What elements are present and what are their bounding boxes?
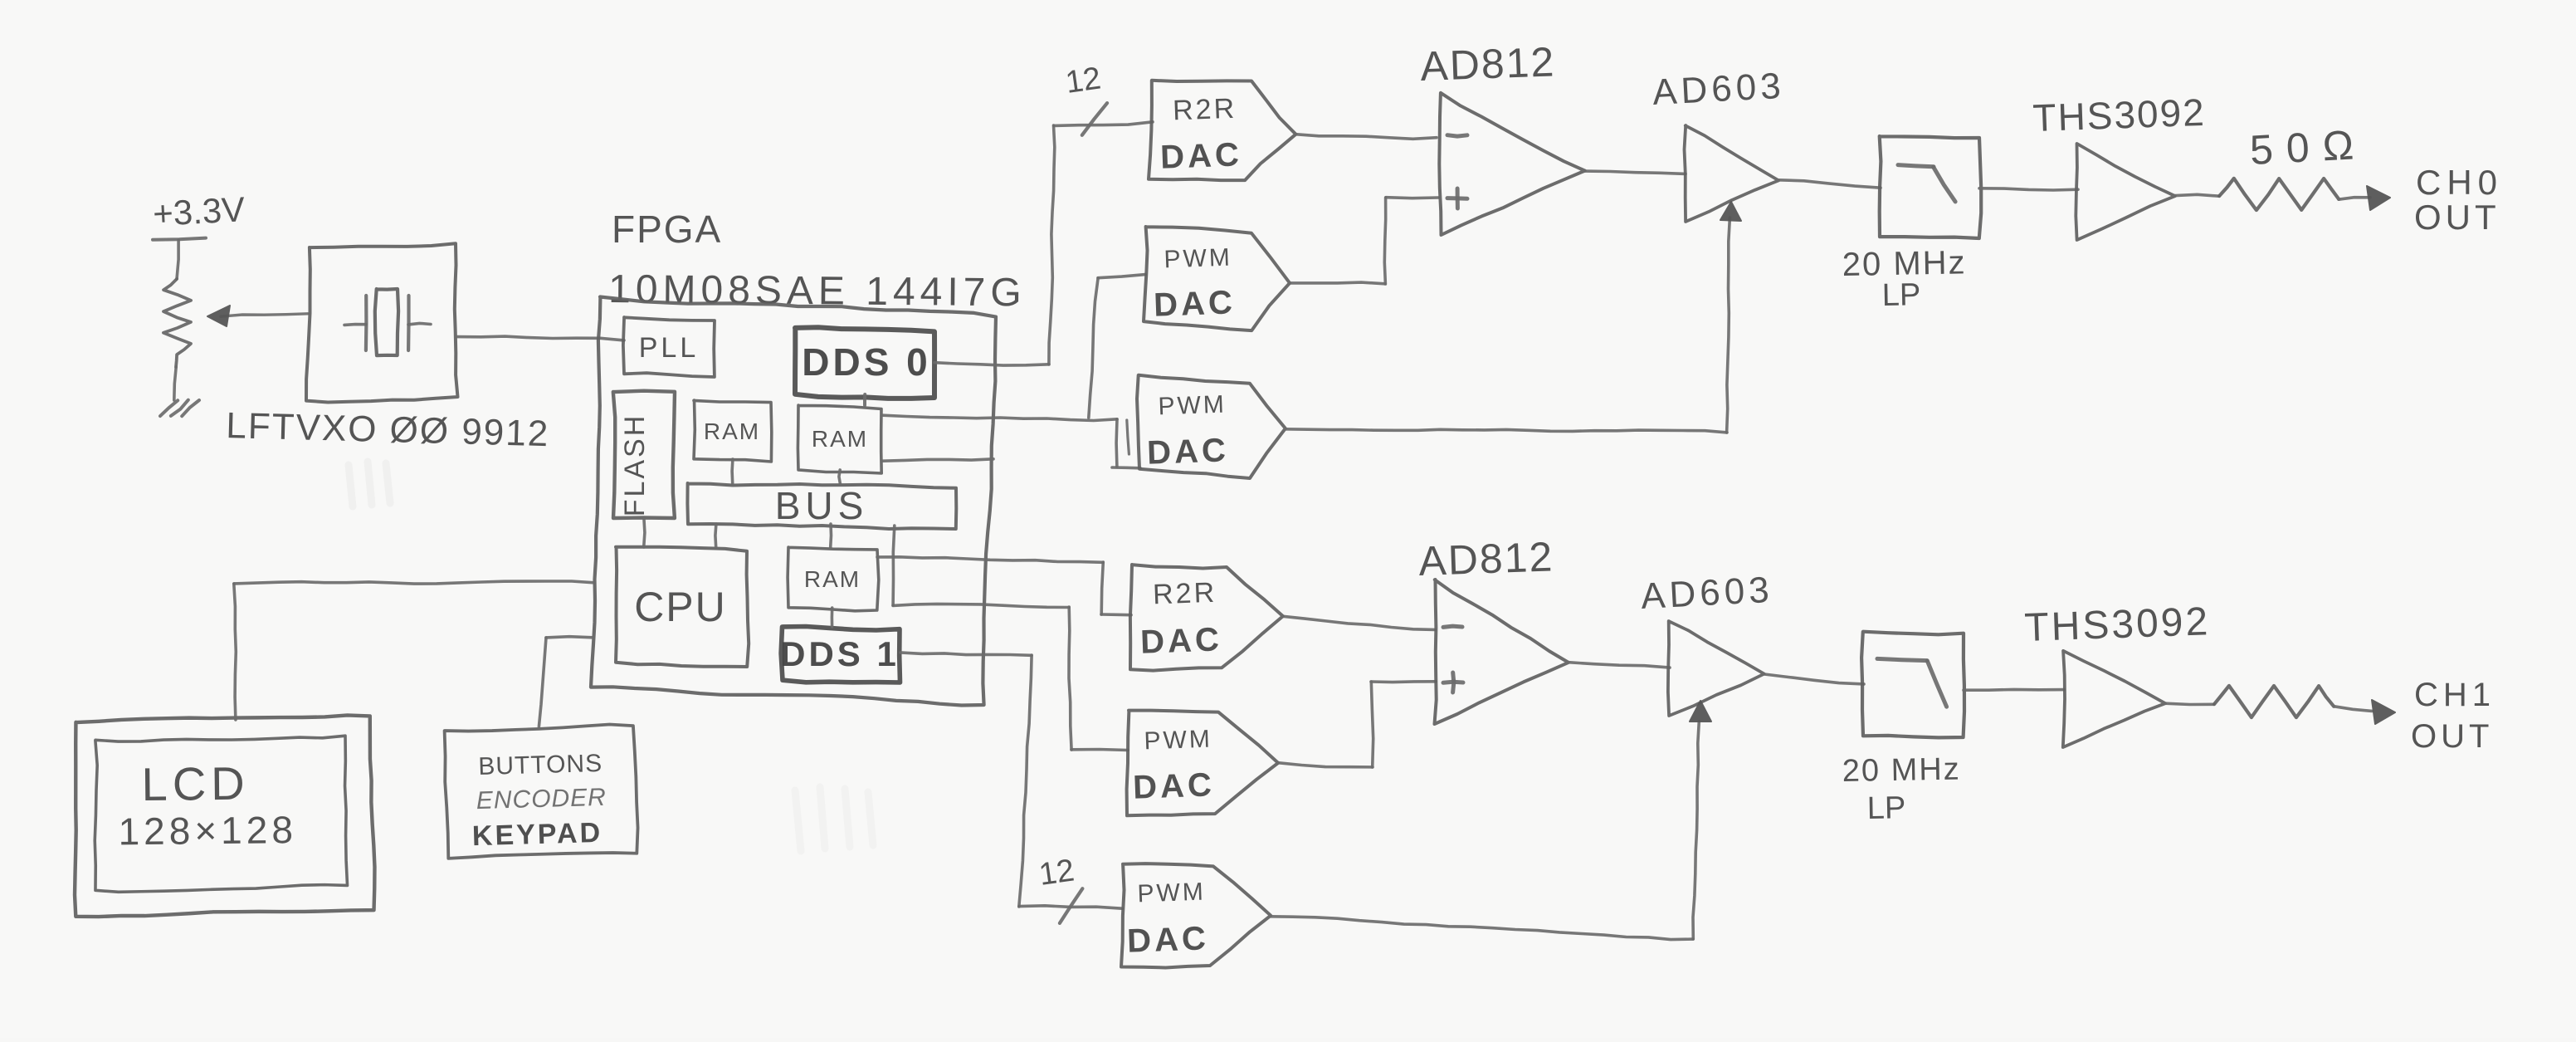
svg-text:LP: LP bbox=[1881, 277, 1920, 313]
svg-text:LCD: LCD bbox=[141, 757, 250, 810]
svg-text:PWM: PWM bbox=[1144, 726, 1212, 756]
svg-text:FPGA: FPGA bbox=[612, 208, 722, 251]
svg-text:DAC: DAC bbox=[1146, 432, 1229, 471]
svg-text:ENCODER: ENCODER bbox=[476, 784, 607, 815]
svg-text:12: 12 bbox=[1037, 853, 1076, 892]
svg-text:OUT: OUT bbox=[2414, 198, 2500, 237]
svg-text:FLASH: FLASH bbox=[619, 413, 651, 517]
svg-text:DAC: DAC bbox=[1126, 920, 1209, 959]
svg-text:+3.3V: +3.3V bbox=[152, 189, 246, 233]
svg-text:RAM: RAM bbox=[812, 426, 868, 452]
svg-text:12: 12 bbox=[1063, 61, 1103, 100]
svg-text:LFTVXO ØØ 9912: LFTVXO ØØ 9912 bbox=[226, 405, 550, 454]
svg-text:R2R: R2R bbox=[1172, 93, 1237, 127]
svg-text:50Ω: 50Ω bbox=[2249, 121, 2369, 174]
svg-text:BUTTONS: BUTTONS bbox=[478, 750, 603, 780]
svg-text:CH0: CH0 bbox=[2416, 163, 2503, 202]
svg-text:RAM: RAM bbox=[704, 418, 760, 444]
svg-text:DAC: DAC bbox=[1139, 621, 1222, 660]
svg-text:DAC: DAC bbox=[1159, 136, 1242, 175]
svg-text:20 MHz: 20 MHz bbox=[1842, 752, 1961, 789]
svg-text:PWM: PWM bbox=[1137, 878, 1206, 908]
svg-text:PWM: PWM bbox=[1164, 244, 1232, 274]
svg-text:KEYPAD: KEYPAD bbox=[471, 817, 603, 852]
svg-text:CPU: CPU bbox=[634, 584, 727, 630]
svg-text:THS3092: THS3092 bbox=[2024, 599, 2211, 650]
svg-text:AD603: AD603 bbox=[1640, 570, 1774, 617]
svg-text:BUS: BUS bbox=[775, 484, 869, 527]
svg-text:RAM: RAM bbox=[804, 566, 861, 592]
svg-text:AD812: AD812 bbox=[1419, 38, 1556, 90]
svg-text:PWM: PWM bbox=[1158, 391, 1227, 421]
svg-text:128×128: 128×128 bbox=[118, 808, 297, 853]
svg-text:DAC: DAC bbox=[1153, 284, 1236, 323]
svg-text:PLL: PLL bbox=[639, 332, 700, 364]
svg-text:DAC: DAC bbox=[1132, 766, 1215, 805]
svg-text:AD603: AD603 bbox=[1651, 66, 1786, 113]
svg-text:DDS 1: DDS 1 bbox=[780, 634, 900, 673]
svg-text:DDS 0: DDS 0 bbox=[802, 340, 930, 384]
svg-text:THS3092: THS3092 bbox=[2032, 91, 2207, 139]
svg-text:R2R: R2R bbox=[1152, 577, 1217, 611]
svg-text:OUT: OUT bbox=[2411, 718, 2493, 755]
svg-text:LP: LP bbox=[1866, 790, 1905, 826]
svg-text:AD812: AD812 bbox=[1417, 533, 1554, 585]
svg-text:CH1: CH1 bbox=[2414, 677, 2495, 713]
